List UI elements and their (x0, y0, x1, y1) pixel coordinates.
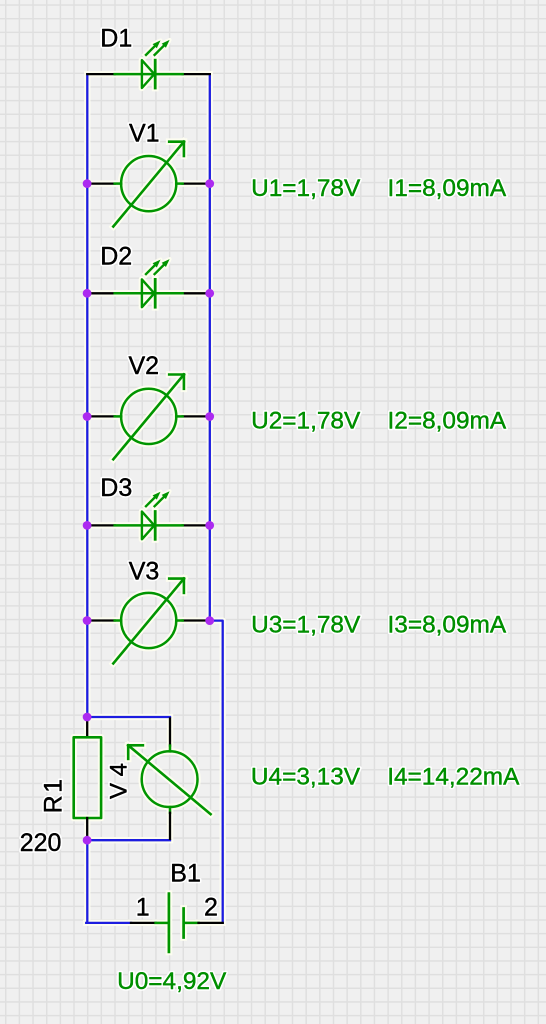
svg-text:2: 2 (204, 894, 218, 922)
svg-text:R1: R1 (40, 776, 68, 813)
svg-text:I4=14,22mA: I4=14,22mA (387, 764, 520, 791)
svg-text:U3=1,78V: U3=1,78V (251, 612, 361, 639)
svg-text:I1=8,09mA: I1=8,09mA (388, 175, 507, 202)
svg-text:V 4: V 4 (105, 763, 132, 799)
svg-text:U4=3,13V: U4=3,13V (251, 764, 361, 791)
svg-text:D3: D3 (100, 474, 132, 502)
svg-text:I3=8,09mA: I3=8,09mA (388, 612, 507, 639)
svg-text:D1: D1 (100, 25, 132, 53)
svg-text:U2=1,78V: U2=1,78V (251, 407, 361, 434)
svg-text:1: 1 (136, 894, 150, 922)
svg-text:I2=8,09mA: I2=8,09mA (388, 407, 507, 434)
svg-text:V1: V1 (129, 119, 160, 147)
svg-text:B1: B1 (170, 859, 201, 887)
svg-text:V3: V3 (129, 557, 160, 585)
svg-text:V2: V2 (129, 352, 160, 380)
svg-text:220: 220 (20, 829, 62, 857)
svg-text:D2: D2 (100, 242, 132, 270)
svg-text:U0=4,92V: U0=4,92V (117, 968, 227, 995)
svg-text:U1=1,78V: U1=1,78V (251, 175, 361, 202)
